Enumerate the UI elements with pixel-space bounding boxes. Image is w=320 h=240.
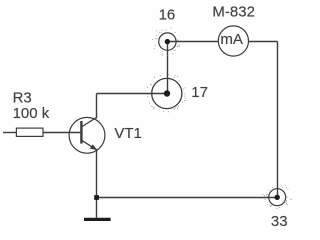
svg-text:100 k: 100 k (13, 105, 50, 122)
node 33 (263, 185, 291, 208)
junction emitter/bottom-rail (94, 195, 99, 200)
transistor Q VT1 (69, 117, 105, 153)
svg-text:M-832: M-832 (212, 4, 255, 21)
wire bottom rail junction to node33 (97, 197, 278, 199)
wire left stub to resistor R3 (3, 132, 16, 134)
svg-text:R3: R3 (13, 90, 32, 107)
wire resistor to transistor base (43, 132, 81, 134)
wire emitter down to junction (96, 149, 98, 197)
wire node16 to ammeter (168, 41, 219, 43)
svg-text:mA: mA (220, 31, 243, 48)
wire node17 to collector corner (97, 93, 168, 95)
node 16 (153, 28, 180, 55)
wire collector vertical (96, 94, 98, 119)
ammeter mA (M-832) (218, 26, 248, 56)
svg-text:VT1: VT1 (114, 125, 142, 142)
svg-text:16: 16 (159, 7, 176, 24)
ground (84, 218, 111, 221)
wire node16 down to node17 (167, 42, 169, 94)
wire junction to ground (96, 198, 98, 218)
svg-text:33: 33 (271, 213, 288, 230)
wire ammeter to top-right corner (248, 41, 277, 43)
resistor R3 (16, 128, 43, 136)
node 17 (148, 75, 186, 112)
wire right rail down to node 33 (277, 42, 279, 198)
svg-text:17: 17 (191, 84, 208, 101)
